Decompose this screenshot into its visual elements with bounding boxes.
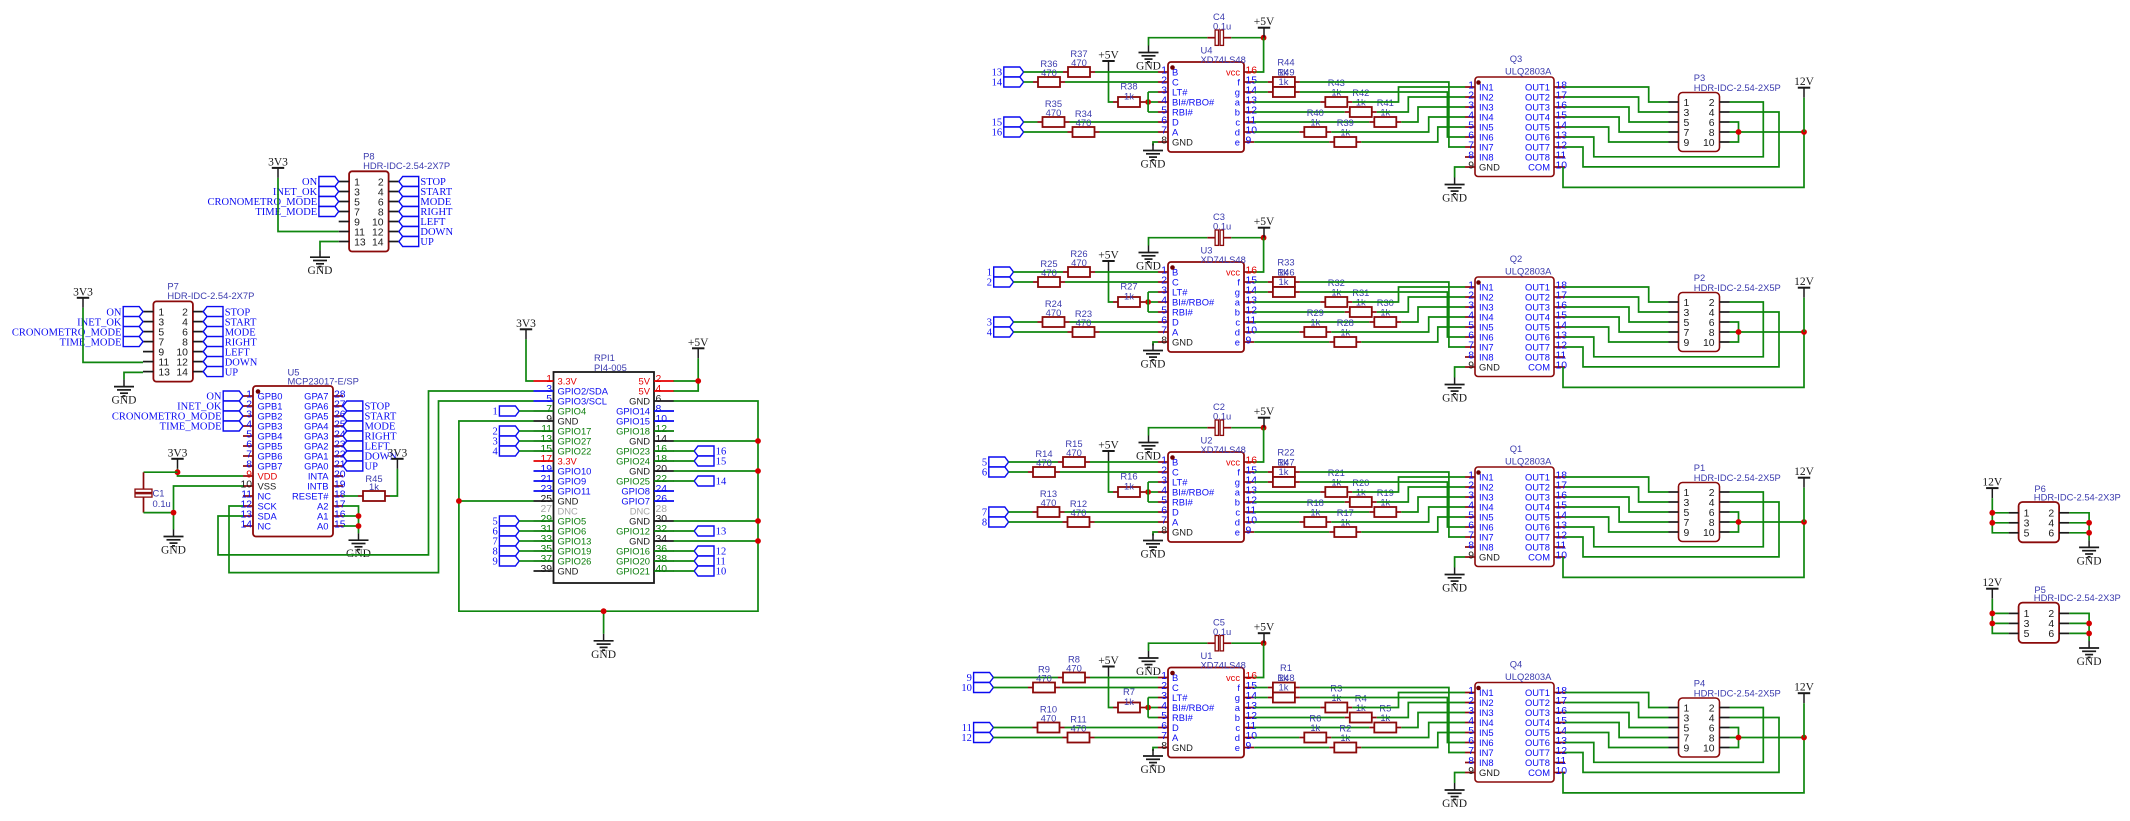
net port 14 [992,77,1024,89]
svg-text:9: 9 [1468,551,1474,562]
svg-text:10: 10 [1556,551,1568,562]
svg-text:0.1u: 0.1u [1213,221,1231,232]
wire U4 to R39 [1254,141,1329,143]
resistor R16 1k [1113,471,1145,498]
wire flag to RPI pin [519,410,533,412]
svg-text:9: 9 [1246,136,1252,147]
svg-text:14: 14 [372,237,384,248]
junction 12V pin3 [1989,520,1995,526]
svg-text:470: 470 [1076,117,1092,128]
svg-text:HDR-IDC-2.54-2X5P: HDR-IDC-2.54-2X5P [1694,472,1781,483]
resistor R23 470 [1068,308,1100,337]
net port 8 [492,546,519,558]
wire a to IN1 [1352,87,1465,102]
power flag +5V (C2) [1254,406,1275,428]
wire OUT6 to P1 pin2 [1565,492,1763,547]
svg-text:GND: GND [1141,159,1166,171]
wire +5V to R16 [1109,461,1114,492]
wire f to IN7 [1300,282,1465,347]
net port 10 [694,566,726,578]
net port 14 [694,476,727,488]
wire C5 to GND [1149,643,1208,651]
wire R12 to U2 pin7 [1095,521,1159,523]
resistor R30 1k [1369,297,1401,327]
resistor R46 1k [1268,287,1300,297]
svg-text:1k: 1k [1310,507,1320,518]
ground (P5) [2077,641,2102,668]
net port STOP [399,177,446,189]
svg-text:C1: C1 [153,488,165,499]
ground (P8) [308,250,333,277]
wire b to IN2 [1377,703,1465,718]
net port 13 [992,67,1024,79]
svg-text:9: 9 [1468,766,1474,777]
wire OUT1 to P1 [1565,477,1669,492]
svg-text:HDR-IDC-2.54-2X5P: HDR-IDC-2.54-2X5P [1694,82,1781,93]
wire RPI GND rail [459,401,758,611]
svg-text:HDR-IDC-2.54-2X3P: HDR-IDC-2.54-2X3P [2034,592,2121,603]
wire net 9 to R8 [993,677,1058,679]
power flag +5V (R38) [1098,50,1119,72]
resistor R7 1k [1113,686,1145,713]
wire d to IN4 [1331,507,1465,522]
svg-text:HDR-IDC-2.54-2X7P: HDR-IDC-2.54-2X7P [167,290,254,301]
junction GND rail [755,438,761,444]
wire R23 to U3 pin7 [1100,331,1159,333]
wire COM to 12V [1563,738,1804,793]
capacitor C3 0.1u [1207,211,1231,245]
ground (P7) [112,380,137,407]
svg-text:1k: 1k [1310,117,1320,128]
wire 12V to P5 pin5 [1992,599,2008,634]
resistor R11 470 [1063,714,1095,743]
wire P1 pins 6-10 tie [1730,512,1739,532]
wire R13 to U2 pin6 [1065,511,1159,513]
ground (Q4) [1442,783,1467,810]
wire b to IN2 [1377,487,1465,502]
net port UP [399,237,434,249]
svg-text:8: 8 [1161,741,1167,752]
junction 12V pin3 [1989,621,1995,627]
svg-text:470: 470 [1041,267,1057,278]
wire R37 to U4 pin1 [1095,71,1158,73]
svg-text:470: 470 [1076,317,1092,328]
junction GND pin4 [2086,520,2092,526]
wire R24 to U3 pin6 [1070,321,1159,323]
wire RPI pin to flag [674,450,695,452]
wire a to IN1 [1352,287,1465,302]
net port 5 [982,457,1009,469]
svg-text:470: 470 [1071,723,1087,734]
junction A0 [356,523,362,529]
power flag +5V (R7) [1098,655,1119,677]
wire P7 pin13 to GND [124,372,143,379]
resistor R31 1k [1345,287,1377,317]
net port START [343,411,397,423]
ground (U2) [1141,534,1166,561]
junction GND left rail [456,498,462,504]
svg-text:470: 470 [1066,447,1082,458]
junction 12V pin1 [1989,510,1995,516]
net port LEFT [203,347,250,359]
wire c to IN3 [1401,713,1465,728]
wire OUT2 to P2 [1565,297,1669,312]
wire U2 to R19 [1254,511,1369,513]
svg-text:HDR-IDC-2.54-2X5P: HDR-IDC-2.54-2X5P [1694,282,1781,293]
wire 12V to P5 pin3 [1992,622,2008,624]
IC Q1 ULQ2803A [1465,443,1567,567]
wire net 16 to R34 [1024,131,1068,133]
wire net 12 to R11 [993,737,1062,739]
power flag 12V (P1) [1794,466,1815,488]
wire OUT7 to P3 pin4 [1565,112,1779,167]
wire b to IN2 [1377,297,1465,312]
svg-text:GND: GND [558,565,579,576]
svg-text:GND: GND [1479,551,1500,562]
wire P3 pin8 to 12V [1730,131,1805,133]
IC U4 XD74LS48 [1158,44,1257,152]
net port 2 [987,277,1014,289]
wire net 14 to R36 [1024,81,1033,83]
svg-text:6: 6 [2048,529,2054,540]
resistor R10 470 [1033,704,1065,733]
resistor R14 470 [1028,448,1060,477]
connector P6 HDR-IDC-2.54-2X3P [2009,483,2121,542]
net port 16 [992,127,1024,139]
wire P6 pin6 to GND [2069,532,2089,534]
wire a to IN1 [1352,477,1465,492]
wire f to resistor [1254,81,1268,83]
junction 12V [1801,329,1807,335]
junction pin8 tie [1736,329,1742,335]
svg-text:6: 6 [2048,629,2054,640]
svg-text:TIME_MODE: TIME_MODE [255,207,317,218]
wire R26 to U3 pin1 [1095,271,1158,273]
svg-text:15: 15 [334,520,346,531]
wire R34 to U4 pin7 [1100,131,1159,133]
wire LT#-RBI# tie [1147,292,1149,312]
svg-text:+5V: +5V [1098,50,1119,62]
power flag +5V (R16) [1098,440,1119,462]
ground (U3) [1141,344,1166,371]
wire RPI GND pin [674,520,759,522]
net port 7 [982,507,1009,519]
wire 12V down [1803,298,1805,332]
net port DOWN [399,227,454,239]
junction 12V [1801,735,1807,741]
wire e to IN5 [1361,517,1465,532]
net port 15 [992,117,1024,129]
svg-text:e: e [1235,136,1240,147]
IC RPI1 PI4-005 Raspberry Pi header [534,352,675,583]
svg-text:HDR-IDC-2.54-2X3P: HDR-IDC-2.54-2X3P [2034,492,2121,503]
wire net 4 to R23 [1014,331,1068,333]
svg-text:+5V: +5V [1098,440,1119,452]
wire g to IN6 [1300,92,1465,137]
svg-text:TIME_MODE: TIME_MODE [60,337,122,348]
power flag 12V (P3) [1794,76,1815,98]
wire LT#-RBI# tie [1147,698,1149,718]
junction C3 +5V [1261,235,1267,241]
wire U4 to R42 [1254,111,1345,113]
wire COM to 12V [1563,332,1804,387]
wire R25 to U3 pin2 [1065,281,1158,283]
junction pin8 tie [1736,519,1742,525]
svg-text:10: 10 [1703,528,1715,539]
svg-text:12V: 12V [1794,466,1815,478]
svg-text:13: 13 [158,367,170,378]
net port 11 [694,556,726,568]
svg-text:NC: NC [258,520,272,531]
wire d to IN4 [1331,117,1465,132]
junction R16/LT# [1145,489,1151,495]
wire net 15 to R35 [1024,121,1038,123]
junction GND pin6 [2086,530,2092,536]
svg-text:e: e [1235,336,1240,347]
resistor R49 1k [1268,87,1300,97]
net port DOWN [343,451,398,463]
wire C5 to +5V [1231,642,1263,644]
svg-text:13: 13 [716,527,727,538]
wire c to IN3 [1401,107,1465,122]
junction GND pin6 [2086,631,2092,637]
junction pin8 tie [1736,735,1742,741]
svg-text:1k: 1k [369,481,379,492]
wire P2 pins 6-10 tie [1730,322,1739,342]
svg-text:GND: GND [1479,767,1500,778]
svg-text:13: 13 [354,237,366,248]
wire OUT5 to P3 [1565,127,1669,142]
svg-text:COM: COM [1528,361,1550,372]
svg-text:GND: GND [2077,656,2102,668]
resistor R38 1k [1113,81,1145,108]
net port 6 [492,526,519,538]
net port 9 [492,556,519,568]
svg-text:470: 470 [1041,497,1057,508]
resistor R15 470 [1058,438,1090,467]
svg-text:470: 470 [1046,107,1062,118]
wire to RBI# [1148,111,1158,113]
svg-text:TIME_MODE: TIME_MODE [160,422,222,433]
net port START [203,317,257,329]
wire C4 to +5V [1231,37,1263,39]
wire COM to 12V [1563,522,1804,577]
svg-text:40: 40 [656,564,668,575]
svg-text:1k: 1k [1310,722,1320,733]
wire flag to RPI pin [519,440,533,442]
junction A1 [356,513,362,519]
net port ON [302,177,339,189]
wire U2 to R18 [1254,521,1299,523]
svg-text:GND: GND [1141,549,1166,561]
wire to LT# [1148,697,1158,699]
wire P6 pin4 to GND [2069,522,2089,524]
wire +5V to U1 VCC [1254,643,1263,677]
wire RPI pin to flag [674,480,695,482]
junction R27/LT# [1145,299,1151,305]
wire to LT# [1148,291,1158,293]
wire 12V down [1803,488,1805,522]
wire COM to 12V [1563,132,1804,187]
wire g to resistor [1254,481,1268,483]
resistor R21 1k [1320,467,1352,497]
resistor R37 470 [1063,48,1095,77]
net port 10 [961,683,993,695]
wire flag to RPI pin [519,540,533,542]
wire g to IN6 [1300,292,1465,337]
wire RESET# to R45 [343,495,358,497]
svg-text:14: 14 [176,367,188,378]
svg-text:14: 14 [240,520,252,531]
net port TIME_MODE [255,207,338,219]
svg-text:Q2: Q2 [1510,253,1523,264]
svg-text:+5V: +5V [688,337,709,349]
power flag +5V (C5) [1254,622,1275,644]
resistor R27 1k [1113,281,1145,308]
net port 16 [694,446,726,458]
junction GND rail [755,518,761,524]
capacitor C2 0.1u [1207,401,1231,435]
svg-text:3V3: 3V3 [268,156,288,168]
net port INET_OK [77,317,143,329]
wire P2 pin8 to 12V [1730,331,1805,333]
junction +5V pin2 [695,378,701,384]
power flag +5V (R27) [1098,250,1119,272]
wire f to IN7 [1300,472,1465,537]
svg-text:GND: GND [1442,193,1467,205]
svg-text:1k: 1k [1124,291,1134,302]
ground (U4) [1141,144,1166,171]
wire OUT7 to P4 pin4 [1565,718,1779,773]
wire U5 VSS to GND [174,486,244,530]
svg-text:GND: GND [161,545,186,557]
wire OUT7 to P2 pin4 [1565,312,1779,367]
net port RIGHT [399,207,453,219]
resistor R45 1k [358,473,390,501]
wire OUT2 to P3 [1565,97,1669,112]
wire to RBI# [1148,501,1158,503]
svg-text:ULQ2803A: ULQ2803A [1505,66,1552,77]
resistor R32 1k [1320,277,1352,307]
wire U3 to R30 [1254,321,1369,323]
resistor R2 1k [1329,723,1361,753]
svg-text:470: 470 [1036,673,1052,684]
svg-text:470: 470 [1071,57,1087,68]
wire net 13 to R37 [1024,71,1063,73]
ground (C1) [161,530,186,557]
junction 12V [1801,129,1807,135]
resistor R8 470 [1058,654,1090,683]
svg-text:1k: 1k [1279,76,1289,87]
connector P5 HDR-IDC-2.54-2X3P [2009,584,2121,643]
junction C1/VSS [171,510,177,516]
net port 4 [987,327,1014,339]
net port STOP [203,307,250,319]
wire OUT6 to P4 pin2 [1565,708,1763,763]
power flag 3V3 (P7) [73,286,93,308]
svg-text:HDR-IDC-2.54-2X5P: HDR-IDC-2.54-2X5P [1694,688,1781,699]
power flag +5V (RPI) [688,337,709,359]
net port INET_OK [273,187,339,199]
connector P8 HDR-IDC-2.54-2X7P [339,151,450,252]
svg-text:XD74LS48: XD74LS48 [1201,659,1246,670]
net port CRONOMETRO_MODE [12,327,143,339]
power flag 12V (P5) [1982,577,2003,599]
ground (Q3) [1442,178,1467,205]
svg-text:GND: GND [112,395,137,407]
svg-text:Q1: Q1 [1510,443,1523,454]
net port ON [106,307,143,319]
net port INET_OK [177,401,243,413]
wire net 2 to R25 [1014,281,1034,283]
net port DOWN [203,357,258,369]
wire f to resistor [1254,471,1268,473]
svg-text:GND: GND [1136,61,1161,73]
wire c to IN3 [1401,497,1465,512]
svg-text:GND: GND [2077,555,2102,567]
svg-text:3V3: 3V3 [387,447,407,459]
net port MODE [399,197,451,209]
wire +5V to R38 [1109,71,1114,102]
power flag 3V3 (R45) [387,447,407,469]
junction 3V3/C1 [175,469,181,475]
svg-text:GND: GND [308,265,333,277]
net port MODE [343,421,395,433]
wire A2 to GND [343,506,359,533]
resistor R18 1k [1299,497,1331,527]
svg-text:GND: GND [1442,393,1467,405]
svg-text:GND: GND [1136,261,1161,273]
resistor R35 470 [1038,98,1070,127]
connector P1 HDR-IDC-2.54-2X5P [1669,462,1781,542]
wire flag to RPI pin [519,430,533,432]
wire RPI pin25 GND [459,500,534,502]
svg-text:XD74LS48: XD74LS48 [1201,54,1246,65]
svg-text:1k: 1k [1279,682,1289,693]
connector P2 HDR-IDC-2.54-2X5P [1669,272,1781,352]
ground (U1) [1141,749,1166,776]
resistor R12 470 [1063,498,1095,527]
wire net 5 to R15 [1009,461,1058,463]
wire R16 to pin4 [1145,491,1158,493]
wire +5V to U4 VCC [1254,38,1263,72]
wire P7 pin11 to 3V3 [83,308,143,363]
ground (P6) [2077,540,2102,567]
wire OUT1 to P3 [1565,87,1669,102]
ground (A0) [346,533,371,560]
svg-text:MCP23017-E/SP: MCP23017-E/SP [288,376,359,387]
svg-text:10: 10 [1556,766,1568,777]
svg-text:470: 470 [1036,457,1052,468]
net port LEFT [399,217,446,229]
wire to RBI# [1148,717,1158,719]
svg-text:0.1u: 0.1u [1213,411,1231,422]
net port 15 [694,456,726,468]
wire g to resistor [1254,91,1268,93]
junction GND pin4 [2086,621,2092,627]
svg-text:0.1u: 0.1u [153,498,171,509]
wire net 7 to R13 [1009,511,1033,513]
ground (C2) [1136,436,1161,463]
IC U5 MCP23017-E/SP [240,367,358,537]
svg-text:ULQ2803A: ULQ2803A [1505,671,1552,682]
svg-text:1k: 1k [1124,481,1134,492]
wire d to IN4 [1331,317,1465,332]
resistor R47 1k [1268,477,1300,487]
wire R35 to U4 pin6 [1070,121,1159,123]
svg-text:1k: 1k [1279,466,1289,477]
IC Q3 ULQ2803A [1465,53,1567,177]
